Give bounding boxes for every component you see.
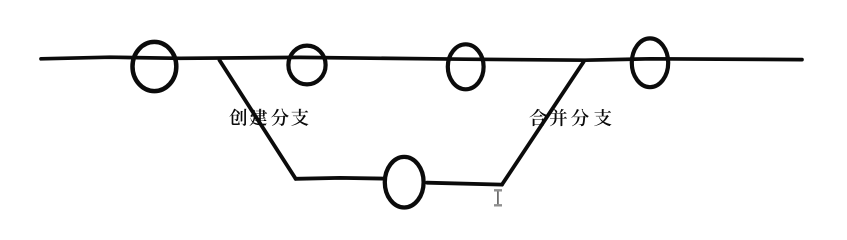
wire: branch-out diagonal (create branch) [220,60,296,179]
label "合并分支" char 1: 合 [529,109,546,126]
text cursor I-beam [494,190,502,205]
node: commit circle 4 [632,38,668,87]
node: commit circle 2 [288,46,325,85]
wire: merge-back diagonal (merge branch) [502,62,584,185]
wire: branch lower-left segment [296,176,384,181]
label "创建分支" char 1: 创 [229,109,246,126]
label "创建分支" char 3: 分 [271,109,289,126]
label "创建分支" char 2: 建 [249,109,267,126]
label "合并分支" char 4: 支 [594,109,611,126]
label "合并分支" char 3: 分 [571,109,589,126]
wire: branch lower-right segment [427,183,502,185]
wire: main trunk line [41,57,802,60]
node: branch commit circle (lower) [385,157,424,208]
label "合并分支" char 2: 并 [550,109,567,126]
label "创建分支" char 4: 支 [291,109,308,126]
node: commit circle 1 [133,42,177,91]
node: commit circle 3 [448,44,484,89]
